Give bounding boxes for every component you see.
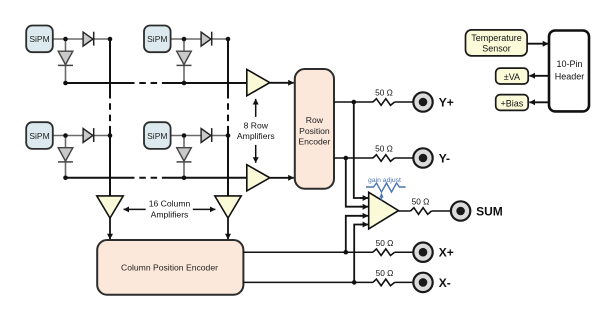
wire row2 SiPM1 to column bus <box>53 135 110 137</box>
row bus 1 dashed <box>128 82 162 84</box>
SiPM row1 col1 <box>26 26 53 53</box>
op-amp row1 <box>247 69 270 95</box>
wire down-diode stem r1c2 <box>183 39 185 83</box>
resistor X- 50ohm <box>373 279 395 286</box>
junction row1 bus c1 <box>63 81 68 86</box>
row bus 2 solid left <box>66 177 129 179</box>
label 16 column amplifiers <box>149 199 191 220</box>
svg-text:Row: Row <box>306 115 324 125</box>
arrow sum input 1 <box>360 197 368 199</box>
diode right r2c1 <box>83 128 94 142</box>
diode right r1c2 <box>201 32 212 46</box>
svg-text:SiPM: SiPM <box>29 131 49 141</box>
svg-text:SiPM: SiPM <box>29 34 49 44</box>
svg-text:8 Row: 8 Row <box>244 120 269 130</box>
row bus 1 solid left <box>66 82 129 84</box>
wire down-diode stem r2c2 <box>183 136 185 178</box>
row bus 2 dashed <box>128 177 162 179</box>
op-amp col2 <box>215 196 241 218</box>
label 16 column amplifiers arrows <box>124 208 216 210</box>
column bus 1 solid bottom <box>109 129 111 197</box>
row bus 1 solid right <box>162 82 247 84</box>
wire X+ to sum input 3 <box>346 216 362 252</box>
junction r2c1 split <box>63 133 68 138</box>
svg-text:+Bias: +Bias <box>501 98 524 108</box>
wire header to +Bias <box>529 101 549 103</box>
wire X- <box>243 281 413 283</box>
10-pin header <box>549 31 589 112</box>
wire SUM output <box>399 210 451 212</box>
resistor SUM 50ohm <box>411 208 432 215</box>
svg-text:SiPM: SiPM <box>147 34 167 44</box>
connector Y+ <box>413 92 432 111</box>
connector SUM <box>451 201 470 220</box>
wire Y- to sum input 2 <box>346 158 362 207</box>
wire Y- <box>334 157 413 159</box>
box +-VA <box>496 68 529 84</box>
wire amp col2 to encoder <box>227 218 229 239</box>
column bus 1 solid top <box>109 39 111 92</box>
diode right r2c2 <box>201 128 212 142</box>
wire row1 SiPM1 to column bus <box>53 38 110 40</box>
junction r2c2 split <box>182 133 187 138</box>
label 8 row amplifiers arrow <box>255 99 257 163</box>
svg-text:±VA: ±VA <box>504 72 520 82</box>
resistor Y- 50ohm <box>373 155 395 162</box>
label 8 row amplifiers <box>237 120 275 141</box>
connector X+ <box>413 243 432 262</box>
svg-text:50 Ω: 50 Ω <box>376 268 394 278</box>
column bus 2 solid bottom <box>227 129 229 197</box>
svg-text:Header: Header <box>555 72 585 82</box>
diode down r2c2 <box>177 148 192 162</box>
svg-text:50 Ω: 50 Ω <box>376 238 394 248</box>
svg-text:50 Ω: 50 Ω <box>375 144 393 154</box>
svg-text:SiPM: SiPM <box>147 131 167 141</box>
svg-text:Amplifiers: Amplifiers <box>151 210 189 220</box>
junction Y- branch <box>344 156 349 161</box>
junction r1c2 split <box>182 37 187 42</box>
resistor X+ 50ohm <box>373 249 395 256</box>
arrow sum input 4 <box>360 224 368 226</box>
junction r1c2 column <box>226 37 231 42</box>
svg-text:Column Position Encoder: Column Position Encoder <box>121 263 218 273</box>
row bus 2 solid right <box>162 177 247 179</box>
op-amp SUM <box>369 192 399 229</box>
diode right r1c1 <box>83 32 94 46</box>
op-amp col1 <box>97 196 123 218</box>
junction r2c2 column <box>226 133 231 138</box>
wire amp col1 to encoder <box>109 218 111 239</box>
wire amp row2 to encoder <box>270 177 294 179</box>
svg-text:Temperature: Temperature <box>471 33 522 43</box>
svg-text:gain adjust: gain adjust <box>368 177 401 184</box>
diode down r2c1 <box>58 148 73 162</box>
box +Bias <box>496 95 529 111</box>
diode down r1c2 <box>177 51 192 65</box>
temperature sensor <box>466 30 528 56</box>
connector X- <box>413 273 432 292</box>
junction r1c1 column <box>108 37 113 42</box>
SiPM row2 col1 <box>26 122 53 149</box>
column position encoder U2 <box>97 240 243 295</box>
row position encoder U1 <box>295 69 334 189</box>
column bus 2 dashed <box>227 92 229 129</box>
svg-text:Position: Position <box>299 126 330 136</box>
svg-text:Y+: Y+ <box>439 95 454 109</box>
wire Y+ to sum input 1 <box>354 102 362 198</box>
wire X- to sum input 4 <box>354 225 362 283</box>
junction X- branch <box>352 280 357 285</box>
svg-text:10-Pin: 10-Pin <box>556 59 582 69</box>
wire X+ <box>243 251 413 253</box>
svg-text:Amplifiers: Amplifiers <box>237 131 275 141</box>
svg-text:X+: X+ <box>439 246 454 260</box>
diode down r1c1 <box>58 51 73 65</box>
wire row1 SiPM2 to column bus <box>171 38 228 40</box>
column bus 2 solid top <box>227 39 229 92</box>
column bus 1 dashed <box>109 92 111 129</box>
SiPM row2 col2 <box>144 122 171 149</box>
junction r2c1 column <box>108 133 113 138</box>
wire down-diode stem r1c1 <box>65 39 67 83</box>
wire down-diode stem r2c1 <box>65 136 67 178</box>
wire amp row1 to encoder <box>270 82 294 84</box>
resistor Y+ 50ohm <box>373 99 395 106</box>
junction r1c1 split <box>63 37 68 42</box>
SiPM row1 col2 <box>144 26 171 53</box>
wire temp sensor to header <box>527 43 548 45</box>
arrow sum input 2 <box>360 206 368 208</box>
svg-text:Encoder: Encoder <box>298 137 330 147</box>
svg-text:Sensor: Sensor <box>482 44 511 54</box>
wire header to +-VA <box>529 75 549 77</box>
junction row2 bus c1 <box>63 176 68 181</box>
junction Y+ branch <box>352 100 357 105</box>
junction row2 bus c2 <box>182 176 187 181</box>
op-amp row2 <box>247 165 270 191</box>
junction row1 bus c2 <box>182 81 187 86</box>
arrow sum input 3 <box>360 215 368 217</box>
svg-text:50 Ω: 50 Ω <box>375 88 393 98</box>
svg-text:X-: X- <box>439 276 451 290</box>
potentiometer gain adjust <box>366 183 406 201</box>
svg-text:16 Column: 16 Column <box>149 199 191 209</box>
wire row2 SiPM2 to column bus <box>171 135 228 137</box>
svg-text:Y-: Y- <box>439 151 450 165</box>
wire Y+ <box>334 101 413 103</box>
connector Y- <box>413 148 432 167</box>
svg-text:50 Ω: 50 Ω <box>412 197 430 207</box>
junction X+ branch <box>344 250 349 255</box>
svg-text:SUM: SUM <box>476 204 503 218</box>
